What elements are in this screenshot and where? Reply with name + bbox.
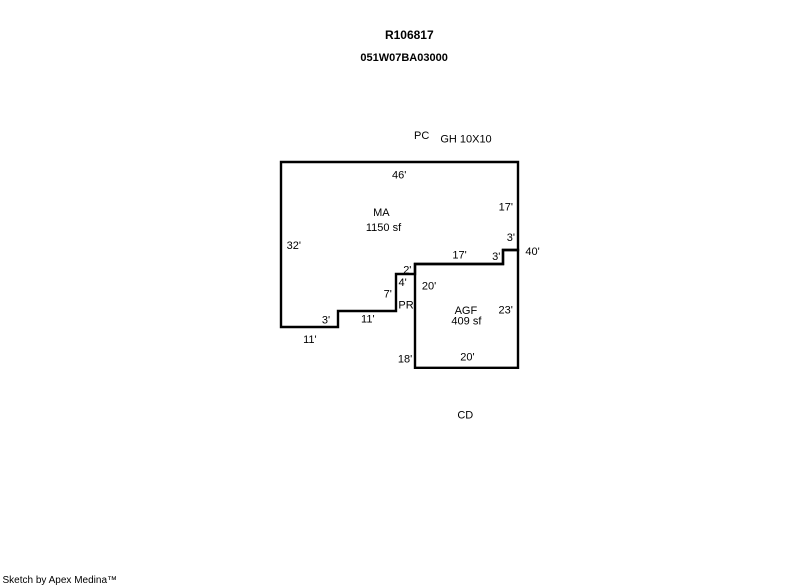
svg-text:20': 20' (460, 352, 474, 364)
svg-text:409 sf: 409 sf (451, 315, 482, 327)
svg-text:23': 23' (499, 304, 513, 316)
svg-text:32': 32' (287, 240, 301, 252)
svg-text:11': 11' (303, 334, 317, 346)
outline MA main area polygon (281, 162, 518, 327)
svg-text:R106817: R106817 (385, 28, 434, 42)
svg-text:2': 2' (403, 264, 411, 276)
outline AGF garage polygon (415, 250, 518, 368)
svg-text:GH 10X10: GH 10X10 (440, 134, 491, 146)
svg-text:3': 3' (507, 232, 515, 244)
svg-text:4': 4' (398, 277, 406, 289)
svg-text:17': 17' (452, 250, 466, 262)
svg-text:20': 20' (422, 280, 436, 292)
svg-text:CD: CD (457, 410, 473, 422)
svg-text:051W07BA03000: 051W07BA03000 (360, 52, 447, 64)
svg-text:Sketch by Apex Medina™: Sketch by Apex Medina™ (3, 575, 118, 586)
svg-text:PC: PC (414, 130, 429, 142)
svg-text:7': 7' (384, 289, 392, 301)
svg-text:3': 3' (492, 251, 500, 263)
svg-text:17': 17' (499, 202, 513, 214)
svg-text:40': 40' (525, 246, 539, 258)
svg-text:MA: MA (373, 207, 390, 219)
svg-text:18': 18' (398, 353, 412, 365)
svg-text:1150 sf: 1150 sf (366, 222, 402, 234)
svg-text:3': 3' (322, 315, 330, 327)
svg-text:11': 11' (361, 314, 375, 326)
svg-text:46': 46' (392, 170, 406, 182)
svg-text:PR: PR (398, 300, 413, 312)
